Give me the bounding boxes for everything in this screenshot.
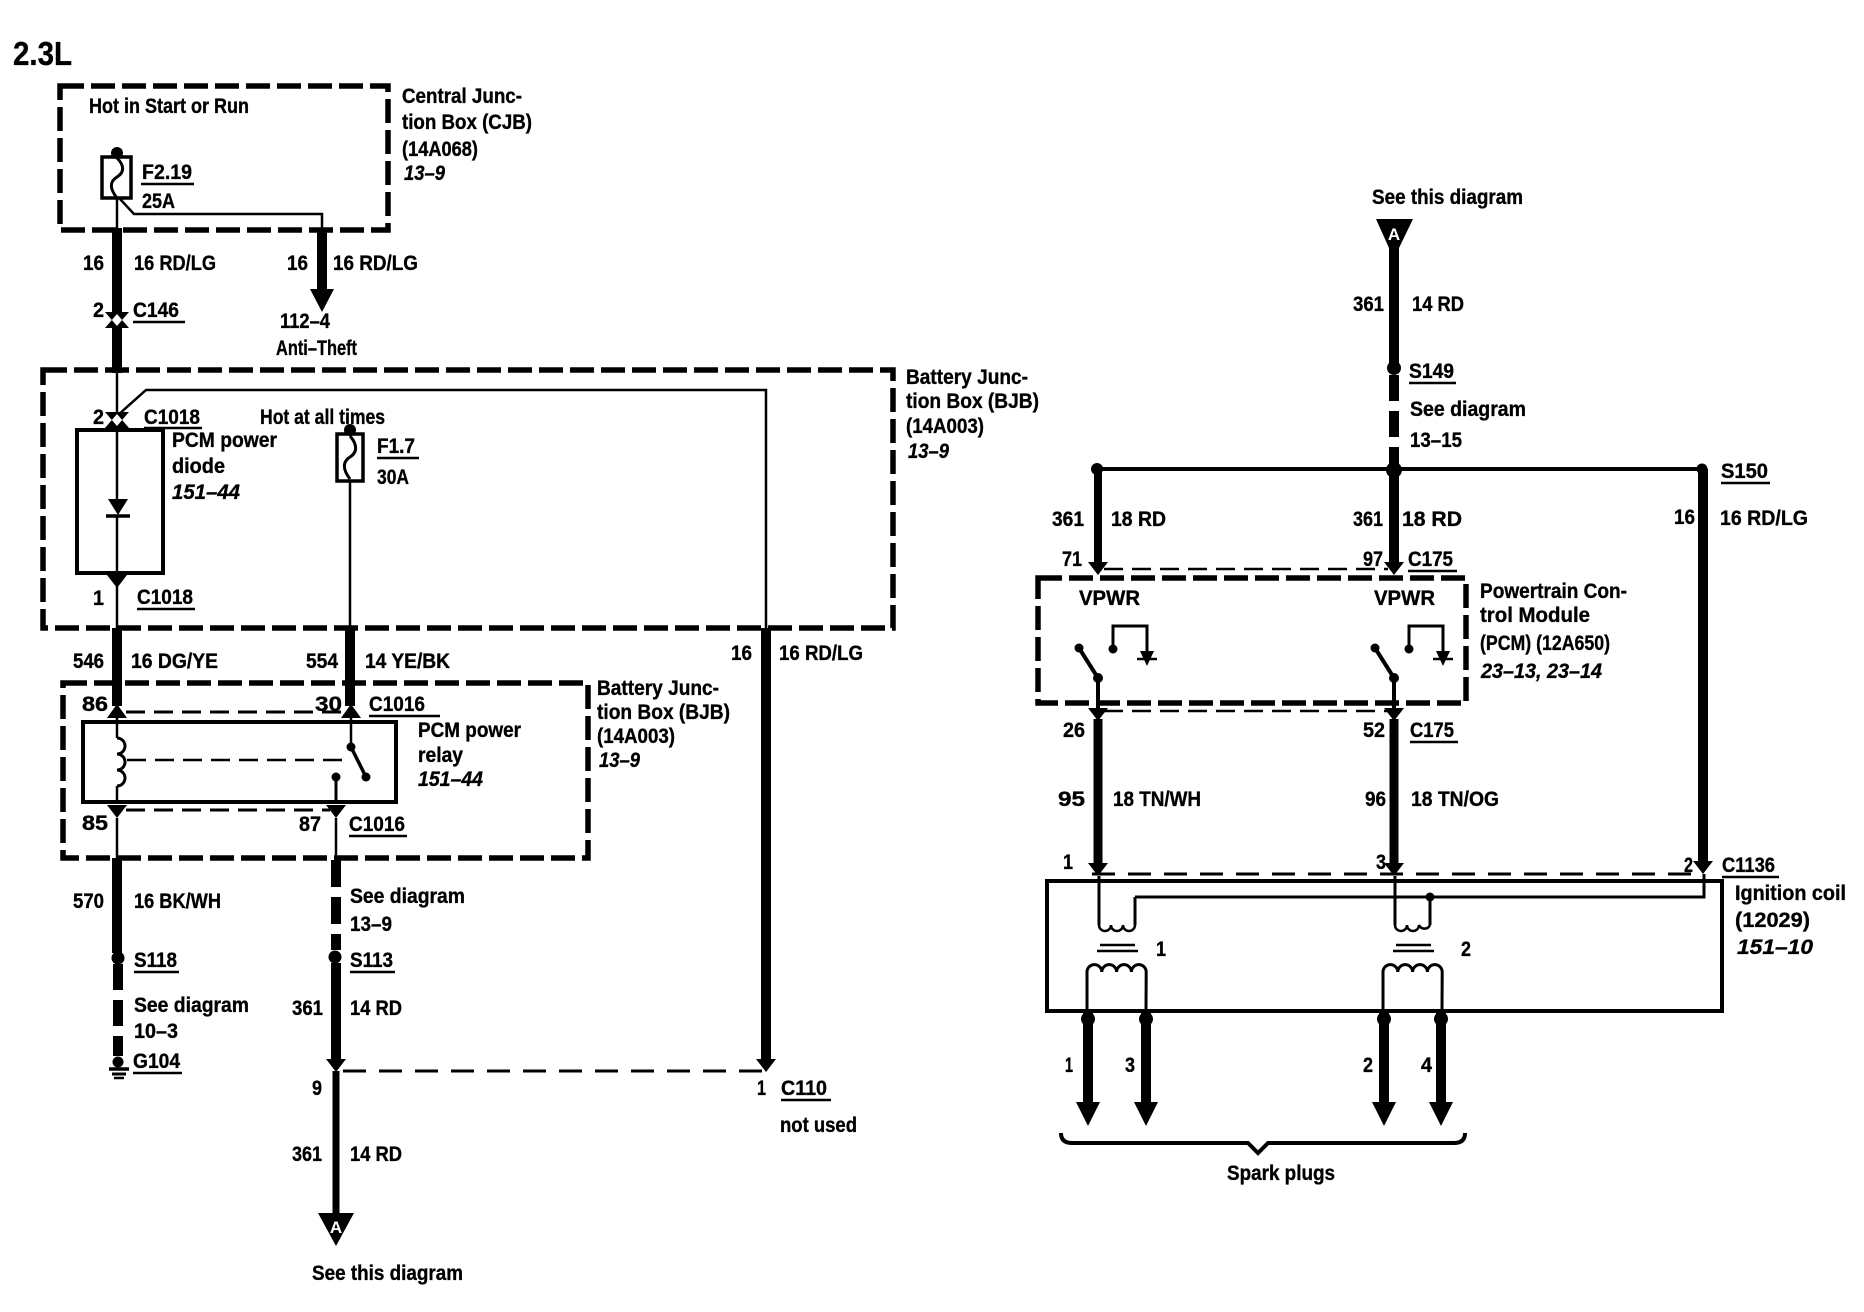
off-page arrow A bottom [318,1213,354,1246]
relay pin87 terminal [332,773,341,804]
svg-text:14 YE/BK: 14 YE/BK [365,650,450,673]
connector C110 pin9 arrow [326,1059,346,1072]
spark plug arrow 3 [1134,1012,1158,1126]
svg-text:14 RD: 14 RD [350,997,402,1020]
wire 16 RD/LG S150 (thick) [1698,469,1708,862]
svg-text:C1016: C1016 [349,813,405,836]
svg-text:25A: 25A [142,190,175,213]
ground G104 [109,1057,129,1079]
coil 2 core [1393,945,1434,951]
svg-text:4: 4 [1421,1054,1432,1077]
spark plugs brace [1061,1133,1465,1153]
svg-text:13–9: 13–9 [350,913,392,936]
svg-text:C1016: C1016 [369,693,425,716]
svg-text:F2.19: F2.19 [142,161,192,184]
splice S150 label [1721,460,1770,483]
wire into C1018 (thin) [116,373,119,412]
svg-text:14 RD: 14 RD [350,1143,402,1166]
wire 554 14 YE/BK (thick) [345,628,355,706]
connector C1136 pin1 arrow [1088,863,1108,876]
label 112-4 Anti-Theft [276,310,357,360]
splice S113 [329,951,342,964]
svg-text:361: 361 [1353,508,1383,531]
relay coil-contact dashed link [127,759,344,762]
fuse F2.19 [102,147,131,198]
connector C175 bottom dashed line [1104,710,1388,713]
svg-text:See diagram: See diagram [1410,398,1526,421]
svg-text:13–9: 13–9 [404,162,445,185]
wire label 16 / 16 RD/LG left [83,252,216,275]
PCM driver clamp left [1109,626,1158,666]
svg-text:96: 96 [1365,788,1386,811]
svg-text:16 DG/YE: 16 DG/YE [131,650,218,673]
svg-text:See diagram: See diagram [350,885,465,908]
svg-text:C1136: C1136 [1722,854,1775,877]
svg-text:2: 2 [1363,1054,1373,1077]
PCM driver switch left [1075,644,1104,684]
splice S113 label [350,949,395,972]
PCM power diode label [172,429,277,504]
wire S118 to G104 (thick dashed) [113,964,123,1056]
spark plug arrow 1 [1076,1012,1100,1126]
svg-text:tion Box (BJB): tion Box (BJB) [597,701,730,724]
coil feed junction dot [1426,893,1435,902]
connector C1018 pin2 label [93,406,202,429]
svg-text:C175: C175 [1410,719,1454,742]
wire F1.7 down (thin) [349,481,352,630]
svg-text:546: 546 [73,650,104,673]
svg-text:23–13, 23–14: 23–13, 23–14 [1480,660,1602,683]
Ignition coil box [1047,881,1722,1011]
spark plug arrow 2 [1372,1012,1396,1126]
junction dot S150 [1697,464,1708,475]
diode symbol [106,499,130,516]
svg-text:71: 71 [1062,548,1082,571]
wire label 361 / 18 RD center [1353,508,1462,531]
svg-text:A: A [1388,225,1400,244]
connector C1016 pin87 arrow [326,805,346,818]
svg-text:tion Box (CJB): tion Box (CJB) [402,111,532,134]
svg-text:2.3L: 2.3L [13,35,72,72]
splice S118 label [134,949,179,972]
wire 546 16 DG/YE (thick) [112,628,122,706]
svg-text:3: 3 [1125,1054,1135,1077]
wire 95 18 TN/WH (thick) [1094,719,1103,866]
svg-text:(PCM) (12A650): (PCM) (12A650) [1480,632,1610,655]
Powertrain Control Module dashed box [1038,578,1466,703]
svg-text:1: 1 [1063,851,1073,874]
svg-text:Spark plugs: Spark plugs [1227,1162,1335,1185]
svg-text:9: 9 [312,1077,322,1100]
svg-text:Ignition coil: Ignition coil [1735,882,1846,905]
connector C1016 bottom label [82,812,407,836]
connector C110 pin1 arrow [756,1059,776,1072]
svg-text:See this diagram: See this diagram [312,1262,463,1285]
connector C175 pin97 arrow [1384,562,1404,575]
wire diode out (thin) [116,586,119,630]
svg-text:361: 361 [292,997,323,1020]
svg-text:16: 16 [287,252,308,275]
label see diagram 13-15 [1410,398,1526,452]
wire label 16 / 16 RD/LG anti-theft [287,252,418,275]
wire label 16 / 16 RD/LG S150 [1674,506,1808,530]
wire C146 to BJB (thick) [112,327,122,373]
wire 16 RD/LG anti-theft (thick) [317,228,327,292]
wire 361 14 RD lower [333,1071,340,1214]
wire label 361 / 14 RD [292,997,402,1020]
svg-text:G104: G104 [133,1050,180,1073]
wire 361 14 RD upper (thick) [331,963,341,1060]
label see diagram 10-3 [134,994,249,1043]
svg-text:(12029): (12029) [1735,909,1810,932]
connector C1016 top label [82,693,440,716]
Central Junction Box (CJB) dashed box [60,86,388,230]
svg-text:151–44: 151–44 [172,481,240,504]
connector C1018 pin1 label [93,586,195,610]
wire fuse to CJB exit (thin) [116,198,119,232]
svg-text:Central Junc-: Central Junc- [402,85,522,108]
connector C146 label [93,299,185,322]
connector C1018 pin1 arrow [107,575,127,588]
wire 96 18 TN/OG (thick) [1390,719,1399,866]
connector C110 dashed line [343,1070,768,1073]
svg-text:Battery Junc-: Battery Junc- [597,677,719,700]
wire anti-theft branch diagonal [120,199,322,230]
wire label 96 / 18 TN/OG [1365,788,1499,811]
wire 361 18 RD left (thick) [1094,469,1102,564]
node S150 horizontal wire [1097,467,1702,471]
svg-text:1: 1 [93,587,104,610]
coil 1 secondary winding [1087,965,1146,1009]
svg-text:13–9: 13–9 [908,440,949,463]
svg-text:554: 554 [306,650,338,673]
connector C1016 pin30 arrow [341,704,361,718]
svg-text:151–10: 151–10 [1737,936,1813,959]
svg-text:S113: S113 [350,949,393,972]
svg-text:See this diagram: See this diagram [1372,186,1523,209]
svg-text:18 TN/WH: 18 TN/WH [1113,788,1201,811]
connector C1136 dashed line [1092,873,1700,876]
wire 361 18 RD center (thick) [1389,470,1399,564]
svg-text:361: 361 [1353,293,1384,316]
PCM power relay label [418,719,521,791]
connector C175 top dashed line [1104,568,1388,571]
Battery Junction Box (BJB) dashed box upper [43,370,893,628]
svg-text:18 RD: 18 RD [1402,508,1462,531]
connector C1016 pin86 arrow [107,704,127,718]
svg-text:F1.7: F1.7 [377,435,415,458]
connector C1136 pin3 arrow [1384,863,1404,876]
svg-text:361: 361 [292,1143,322,1166]
svg-text:18 TN/OG: 18 TN/OG [1411,788,1499,811]
BJB upper name label [906,366,1039,463]
svg-text:570: 570 [73,890,104,913]
PCM power diode box [77,430,163,573]
svg-text:Hot at all times: Hot at all times [260,406,385,429]
svg-text:VPWR: VPWR [1374,587,1435,610]
svg-text:97: 97 [1363,548,1383,571]
fuse F1.7 [337,424,363,481]
PCM driver switch right [1371,644,1400,684]
connector C175 bottom label [1063,719,1458,742]
wire pin85 to BJB edge (thin) [116,818,119,858]
spark plug arrow 4 [1429,1012,1453,1126]
wire diode to box bottom (thin) [116,516,119,573]
wire label 570 / 16 BK/WH [73,890,221,913]
svg-text:diode: diode [172,455,225,478]
wire label 95 / 18 TN/WH [1058,788,1201,811]
coil 1 core [1097,945,1138,951]
svg-text:PCM power: PCM power [172,429,277,452]
svg-text:87: 87 [299,813,321,836]
splice S149 label [1409,360,1456,383]
svg-text:16: 16 [83,252,104,275]
wire pin87 down (thick dashed) [331,860,341,950]
svg-text:95: 95 [1058,788,1085,811]
svg-text:86: 86 [82,693,108,716]
Ignition coil name label [1735,882,1846,959]
PCM power relay box [83,722,396,802]
svg-text:S118: S118 [134,949,177,972]
coil 2 primary winding [1395,876,1430,931]
svg-text:16 RD/LG: 16 RD/LG [134,252,216,275]
svg-text:16: 16 [1674,506,1695,529]
svg-text:A: A [330,1218,342,1237]
svg-text:18 RD: 18 RD [1111,508,1166,531]
svg-text:13–9: 13–9 [599,749,640,772]
connector C175 pin26 arrow [1088,708,1108,721]
PCM name label [1480,580,1627,683]
wire label 554 / 14 YE/BK [306,650,450,673]
Battery Junction Box (BJB) dashed box lower [63,683,588,858]
junction dot center [1386,462,1402,478]
coil feed wire from pin2 [1135,874,1704,897]
relay switch pin30 lead [350,717,353,746]
wire pin87 to BJB edge (thin) [335,818,338,858]
svg-text:2: 2 [93,406,104,429]
svg-text:13–15: 13–15 [1410,429,1462,452]
svg-text:PCM power: PCM power [418,719,521,742]
svg-text:16 RD/LG: 16 RD/LG [333,252,418,275]
svg-text:Anti–Theft: Anti–Theft [276,337,357,360]
fuse F2.19 value label [141,161,194,213]
svg-text:2: 2 [1461,938,1471,961]
wire label 361 / 18 RD left [1052,508,1166,531]
fuse F1.7 value label [377,435,419,489]
svg-text:10–3: 10–3 [134,1020,178,1043]
svg-text:VPWR: VPWR [1079,587,1140,610]
svg-text:relay: relay [418,744,463,767]
svg-text:85: 85 [82,812,108,835]
splice S149 [1387,361,1401,375]
svg-text:30: 30 [315,693,342,716]
svg-text:1: 1 [757,1077,766,1100]
off-page arrow A top [1376,219,1413,248]
junction dot left [1091,463,1103,475]
PCM driver clamp right [1405,626,1454,666]
svg-text:26: 26 [1063,719,1085,742]
connector C175 pin97 label [1363,548,1457,571]
svg-text:16 RD/LG: 16 RD/LG [1720,507,1808,530]
spark plug pin labels [1065,1054,1432,1077]
connector C175 pin71 arrow [1088,562,1108,575]
svg-text:361: 361 [1052,508,1084,531]
svg-text:3: 3 [1376,851,1386,874]
wire through diode (thin) [116,427,119,500]
wire 570 16 BK/WH (thick) [112,858,122,953]
connector C1016 top dashed line [126,711,344,714]
svg-text:112–4: 112–4 [280,310,330,333]
wire driver left to pin26 (thin) [1096,678,1100,708]
connector C175 pin52 arrow [1384,708,1404,721]
splice S118 [112,952,125,965]
wire A to S149 (thick) [1389,246,1399,363]
svg-text:Powertrain Con-: Powertrain Con- [1480,580,1627,603]
wire S149 to junction (thick dashed) [1389,375,1399,465]
svg-text:See diagram: See diagram [134,994,249,1017]
svg-text:1: 1 [1065,1054,1073,1077]
svg-text:2: 2 [93,299,104,322]
svg-text:trol Module: trol Module [1480,604,1590,627]
svg-text:(14A068): (14A068) [402,138,478,161]
connector C1016 pin85 arrow [107,805,127,818]
relay coil [117,717,125,802]
wire 16 RD/LG left (thick) [112,228,122,312]
connector C1136 pin2 arrow [1693,861,1713,874]
connector C146 symbol [105,312,129,328]
relay switch blade [347,743,371,782]
svg-text:C1018: C1018 [137,586,193,609]
connector C1136 label [1063,851,1779,877]
svg-text:2: 2 [1684,854,1693,877]
svg-text:S150: S150 [1721,460,1768,483]
svg-text:16: 16 [731,642,752,665]
svg-text:16 BK/WH: 16 BK/WH [134,890,221,913]
connector C110 pin1 label [757,1077,857,1137]
svg-text:S149: S149 [1409,360,1454,383]
ground G104 label [133,1050,182,1073]
svg-text:C175: C175 [1408,548,1453,571]
CJB name label [402,85,532,185]
connector C1018 pin2 symbol [105,412,129,428]
svg-text:14 RD: 14 RD [1412,293,1464,316]
svg-text:C110: C110 [781,1077,827,1100]
wire BJB internal feed to 16 RD/LG (thin) [118,390,766,628]
svg-text:C1018: C1018 [144,406,200,429]
arrow to 112-4 Anti-Theft [310,289,334,312]
svg-text:16 RD/LG: 16 RD/LG [779,642,863,665]
svg-text:30A: 30A [377,466,409,489]
connector C1016 bottom dashed line [126,809,330,812]
label see diagram 13-9 [350,885,465,936]
svg-text:C146: C146 [133,299,179,322]
BJB lower name label [597,677,730,772]
wire label 361 / 14 RD lower [292,1143,402,1166]
wire driver right to pin52 (thin) [1392,678,1396,708]
wire label 546 / 16 DG/YE [73,650,218,673]
svg-text:52: 52 [1363,719,1385,742]
svg-text:not used: not used [780,1114,857,1137]
svg-text:(14A003): (14A003) [906,415,984,438]
coil 1 primary winding [1099,876,1135,931]
svg-text:151–44: 151–44 [418,768,483,791]
coil 2 secondary winding [1383,965,1442,1009]
wire 16 RD/LG right (thick) [761,628,771,1062]
svg-text:1: 1 [1156,938,1166,961]
svg-text:Hot in Start or Run: Hot in Start or Run [89,95,249,118]
svg-text:Battery Junc-: Battery Junc- [906,366,1028,389]
wire label 361 / 14 RD top [1353,293,1464,316]
wire label 16 / 16 RD/LG right [731,642,863,665]
svg-text:(14A003): (14A003) [597,725,675,748]
svg-text:tion Box (BJB): tion Box (BJB) [906,390,1039,413]
